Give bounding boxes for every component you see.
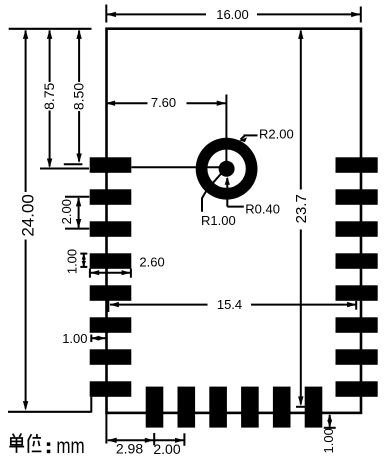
vertical centerline to connector bbox=[225, 95, 227, 169]
dimension 2.60 pad width bbox=[90, 255, 165, 278]
dimension 15.4 bbox=[108, 297, 356, 312]
svg-text:R0.40: R0.40 bbox=[245, 201, 280, 216]
dimension 24.00 bbox=[19, 29, 38, 410]
module outline bbox=[107, 29, 362, 413]
right pad 7 bbox=[336, 349, 378, 365]
units label 单位：mm bbox=[9, 434, 84, 459]
left pad 4 bbox=[90, 253, 132, 268]
svg-text:2.60: 2.60 bbox=[139, 255, 164, 270]
dimension 16.00 bbox=[106, 5, 360, 23]
U.FL connector outer ring bbox=[196, 138, 258, 200]
left pad 7 bbox=[90, 349, 132, 365]
label R1.00 leader bbox=[201, 172, 236, 229]
right pad 6 bbox=[336, 317, 378, 333]
dimension 2.00 left pitch bbox=[59, 197, 89, 229]
svg-text:2.00: 2.00 bbox=[59, 199, 74, 224]
bottom pad 2 bbox=[178, 387, 196, 428]
svg-text:15.4: 15.4 bbox=[217, 297, 242, 312]
svg-text:8.75: 8.75 bbox=[41, 82, 57, 109]
right pad 2 bbox=[336, 189, 378, 205]
bottom pad 3 bbox=[209, 387, 227, 428]
dimension 2.00 bottom bbox=[153, 433, 184, 457]
horizontal centerline from pad1 to connector bbox=[132, 166, 227, 168]
left pad 1 bbox=[90, 157, 132, 173]
bottom pad 4 bbox=[241, 387, 259, 428]
dimension 23.7 bbox=[293, 29, 310, 406]
U.FL connector center pin bbox=[219, 161, 235, 177]
left pad 8 bbox=[90, 381, 132, 397]
svg-text:mm: mm bbox=[56, 436, 84, 459]
left pad 3 bbox=[90, 221, 132, 237]
svg-text:7.60: 7.60 bbox=[151, 95, 176, 110]
right pad 8 bbox=[336, 381, 378, 397]
bottom-left extension line bbox=[8, 411, 92, 413]
left pad 5 bbox=[90, 285, 132, 301]
top-left extension line bbox=[9, 28, 92, 30]
svg-text:1.00: 1.00 bbox=[65, 249, 80, 274]
right pad 3 bbox=[336, 221, 378, 237]
dimension 7.60 bbox=[106, 95, 227, 110]
left pad 2 bbox=[90, 189, 132, 205]
right pad 1 bbox=[336, 157, 378, 173]
dimension 8.50 bbox=[64, 29, 87, 164]
svg-text:2.98: 2.98 bbox=[116, 441, 143, 457]
svg-text:1.00: 1.00 bbox=[321, 428, 336, 453]
svg-text:8.50: 8.50 bbox=[71, 83, 87, 110]
pad8 corner extension stub bbox=[90, 397, 92, 413]
dimension 1.00 pad height bbox=[65, 249, 88, 274]
svg-text:16.00: 16.00 bbox=[216, 7, 249, 22]
bottom pad 6 bbox=[305, 387, 323, 428]
left pad 6 bbox=[90, 317, 132, 333]
dimension 1.00 bottom right bbox=[321, 414, 336, 453]
svg-text:R2.00: R2.00 bbox=[259, 127, 294, 142]
svg-text:2.00: 2.00 bbox=[153, 441, 180, 457]
svg-text:1.00: 1.00 bbox=[62, 331, 87, 346]
dimension 1.00 pad protrusion bbox=[62, 331, 105, 346]
svg-text:23.7: 23.7 bbox=[293, 194, 310, 223]
right pad 5 bbox=[336, 285, 378, 301]
svg-text:24.00: 24.00 bbox=[19, 194, 38, 237]
svg-text:R1.00: R1.00 bbox=[201, 213, 236, 228]
right pad 4 bbox=[336, 253, 378, 268]
bottom pad 1 bbox=[146, 387, 164, 428]
dimension 2.98 bottom bbox=[106, 413, 184, 457]
label R0.40 leader bbox=[225, 177, 280, 217]
bottom pad 5 bbox=[273, 387, 291, 428]
label R2.00 leader bbox=[239, 127, 293, 142]
dimension 8.75 bbox=[40, 29, 89, 168]
